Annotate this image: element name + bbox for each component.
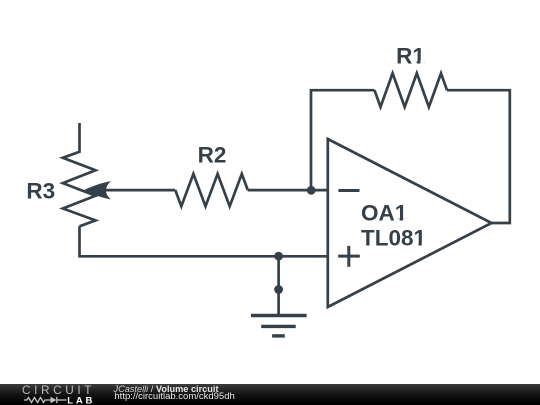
wire: R2 to inverting input	[248, 189, 328, 192]
potentiometer R3	[63, 123, 96, 226]
resistor R1	[375, 73, 448, 107]
svg-text:R3: R3	[26, 178, 55, 203]
credit line 2: url	[114, 392, 234, 402]
svg-text:R1: R1	[396, 43, 425, 68]
resistor R2	[175, 174, 248, 206]
svg-text:OA1: OA1	[361, 201, 407, 226]
wire: feedback left vertical + top-left horizontal	[311, 90, 375, 191]
svg-text:R2: R2	[198, 142, 227, 167]
junction dot: inverting input node	[307, 186, 316, 195]
wire: R3 bottom to non-inverting input	[80, 226, 328, 256]
credit line 1: author / title	[114, 385, 219, 395]
junction dot: ground node	[274, 285, 283, 294]
junction dot: non-inverting node	[274, 252, 283, 261]
wire: ground stub	[277, 256, 280, 314]
svg-text:LAB: LAB	[67, 395, 95, 405]
plus sign: non-inverting input	[338, 246, 360, 267]
wire: wiper to R2	[101, 189, 175, 192]
ground	[251, 316, 307, 336]
minus sign: inverting input	[338, 189, 359, 192]
svg-text:TL081: TL081	[361, 225, 426, 250]
CircuitLab logo	[0, 384, 110, 405]
op-amp OA1	[328, 139, 492, 307]
wire: top-right horizontal + right vertical + output stub	[447, 90, 510, 223]
R3 wiper arrow	[84, 181, 112, 199]
